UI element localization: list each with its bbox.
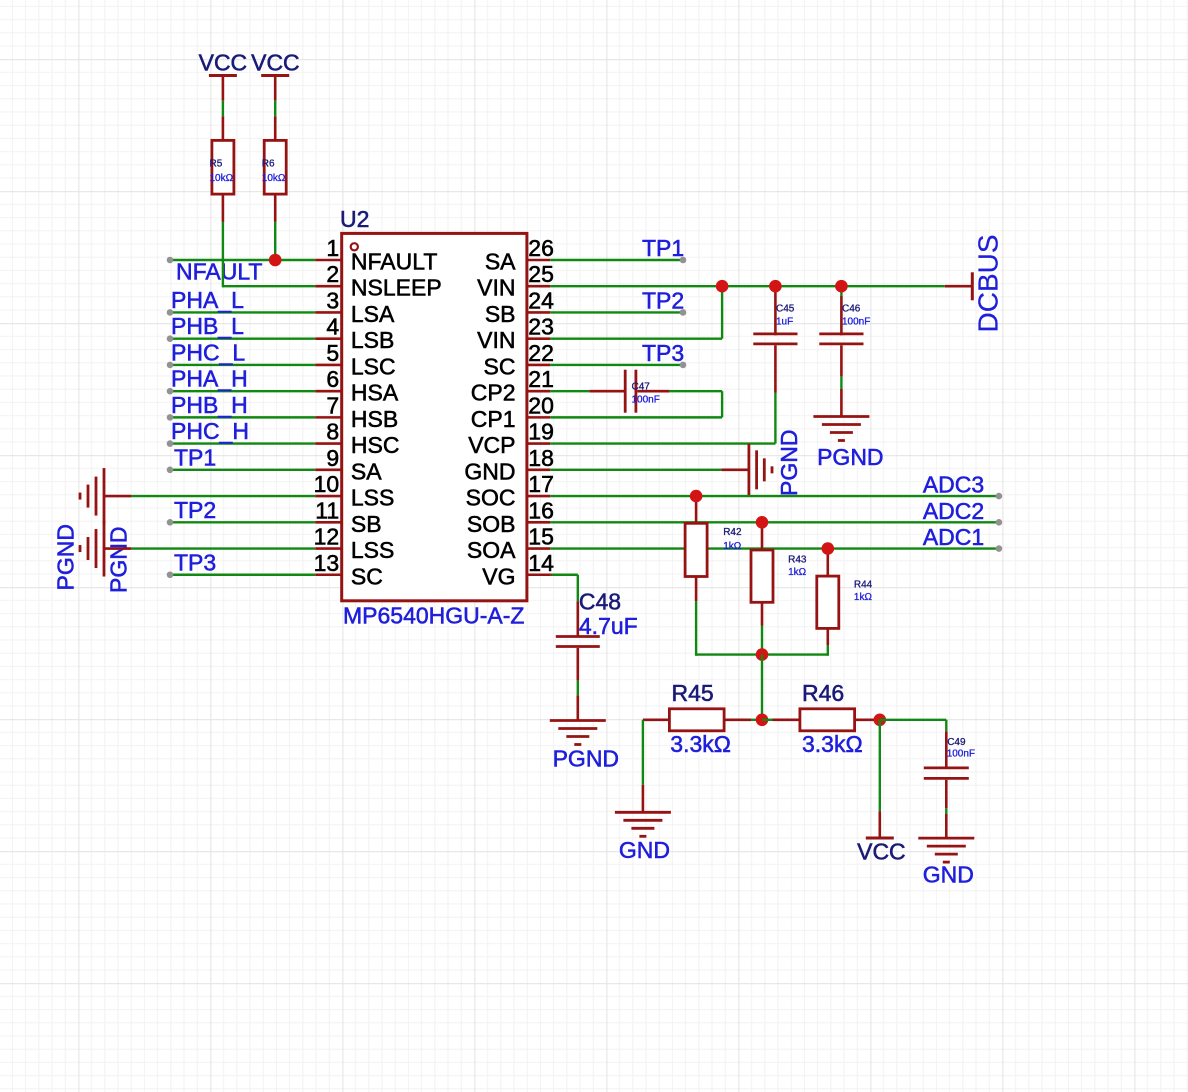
pin 8 HSC (left stub) — [315, 419, 399, 459]
svg-text:CP1: CP1 — [471, 406, 516, 432]
power flag DCBUS — [945, 234, 1004, 332]
svg-text:GND: GND — [923, 862, 974, 888]
svg-text:19: 19 — [528, 419, 554, 445]
resistor R46 3.3kΩ — [762, 680, 880, 757]
svg-text:R44: R44 — [854, 580, 873, 591]
pin 18 GND (right stub) — [464, 445, 554, 485]
svg-text:5: 5 — [326, 340, 339, 366]
svg-text:DCBUS: DCBUS — [973, 234, 1004, 332]
svg-text:VCP: VCP — [468, 432, 515, 458]
pin 22 SC (right stub) — [484, 340, 554, 380]
net label ADC3 wire (pin 17 SOC) — [550, 472, 1002, 500]
svg-text:8: 8 — [326, 419, 339, 445]
svg-text:PHB_H: PHB_H — [171, 392, 248, 418]
pin 25 VIN (right stub) — [477, 261, 554, 301]
svg-text:2: 2 — [326, 261, 339, 287]
wire pin 14 VG to C48 — [550, 575, 578, 637]
svg-text:NSLEEP: NSLEEP — [351, 275, 442, 301]
junction R46/VCC/C49 — [874, 714, 887, 727]
wire R43 to sense node — [761, 626, 763, 655]
svg-text:LSS: LSS — [351, 485, 394, 511]
svg-text:PGND: PGND — [106, 527, 132, 593]
svg-text:TP1: TP1 — [174, 444, 216, 470]
capacitor C47 100nF — [625, 370, 669, 413]
pin 20 CP1 (right stub) — [471, 392, 554, 432]
svg-text:TP3: TP3 — [642, 340, 684, 366]
net label PHB_H wire (pin 7) — [167, 392, 316, 421]
wire C47 to pin 20 CP1 — [550, 391, 722, 417]
net label TP1 wire (pin 9) — [167, 444, 316, 473]
svg-text:TP2: TP2 — [174, 497, 216, 523]
wire R44 to sense node — [762, 645, 828, 656]
svg-text:HSA: HSA — [351, 380, 399, 406]
svg-text:GND: GND — [619, 837, 670, 863]
capacitor C46 100nF — [819, 286, 870, 376]
svg-text:VG: VG — [482, 563, 515, 589]
svg-text:100nF: 100nF — [947, 748, 975, 759]
svg-text:C45: C45 — [776, 304, 795, 315]
svg-text:R42: R42 — [723, 527, 742, 538]
ground GND (R45) — [615, 812, 671, 863]
svg-text:22: 22 — [528, 340, 554, 366]
pin 13 SC (left stub) — [314, 550, 383, 590]
pin 16 SOB (right stub) — [467, 497, 554, 537]
pin 17 SOC (right stub) — [466, 471, 554, 511]
svg-text:14: 14 — [528, 550, 554, 576]
ground PGND (pin 18) — [749, 430, 802, 496]
svg-text:SOA: SOA — [467, 537, 516, 563]
svg-text:SB: SB — [485, 301, 516, 327]
svg-text:U2: U2 — [340, 206, 369, 232]
svg-text:PHA_L: PHA_L — [171, 287, 244, 313]
svg-text:3.3kΩ: 3.3kΩ — [670, 731, 731, 757]
wire to C49 — [880, 720, 947, 767]
power flag VCC (R5) — [199, 50, 248, 101]
junction sense/R45/R46 — [756, 714, 769, 727]
net label ADC2 wire (pin 16 SOB) — [550, 498, 1002, 526]
power flag VCC (R6) — [251, 50, 300, 101]
svg-text:GND: GND — [464, 458, 515, 484]
junction ADC3/R42 — [690, 490, 703, 503]
wire VCC to R5 — [222, 101, 224, 117]
capacitor C49 100nF — [924, 737, 975, 809]
svg-text:11: 11 — [315, 497, 339, 523]
junction ADC2/R43 — [756, 516, 769, 529]
svg-text:4.7uF: 4.7uF — [579, 613, 638, 639]
pin 2 NSLEEP (left stub) — [315, 261, 441, 301]
svg-text:LSS: LSS — [351, 537, 394, 563]
wire VCC to R6 — [274, 101, 276, 117]
resistor R43 1kΩ — [751, 522, 807, 625]
pin 24 SB (right stub) — [485, 287, 554, 327]
capacitor C45 1uF — [753, 286, 797, 344]
pin 15 SOA (right stub) — [467, 524, 554, 564]
svg-text:17: 17 — [528, 471, 554, 497]
svg-text:R46: R46 — [802, 680, 844, 706]
svg-text:100nF: 100nF — [842, 317, 870, 328]
svg-text:4: 4 — [326, 314, 339, 340]
resistor R45 3.3kΩ — [643, 680, 762, 757]
pin 26 SA (right stub) — [485, 235, 554, 275]
svg-text:HSC: HSC — [351, 432, 400, 458]
svg-text:3: 3 — [326, 287, 339, 313]
svg-text:SOC: SOC — [466, 485, 516, 511]
svg-text:1kΩ: 1kΩ — [788, 567, 807, 578]
junction pin1/R6 — [269, 254, 282, 267]
net label PHB_L wire (pin 4) — [167, 313, 316, 342]
svg-text:R5: R5 — [210, 159, 223, 170]
net label TP3 wire (pin 22) — [550, 340, 686, 368]
svg-text:LSA: LSA — [351, 301, 395, 327]
pin 21 CP2 (right stub) — [471, 366, 554, 406]
net label PHC_L wire (pin 5) — [167, 339, 316, 368]
svg-text:ADC2: ADC2 — [923, 498, 984, 524]
pin 12 LSS (left stub) — [314, 524, 395, 564]
svg-text:C47: C47 — [632, 381, 651, 392]
svg-text:ADC1: ADC1 — [923, 524, 984, 550]
svg-text:1uF: 1uF — [776, 317, 793, 328]
ground PGND (pin 12 LSS) — [80, 521, 315, 593]
svg-text:NFAULT: NFAULT — [176, 259, 262, 285]
wire R42 to sense node — [696, 601, 762, 656]
wire C46 to ground — [840, 376, 842, 416]
svg-text:C49: C49 — [947, 737, 966, 748]
ground GND (C49) — [918, 838, 974, 887]
net label ADC1 wire (pin 15 SOA) — [550, 524, 1002, 552]
svg-text:7: 7 — [326, 392, 339, 418]
junction VIN/C45 — [769, 280, 782, 293]
junction ADC1/R44 — [822, 542, 835, 555]
junction VIN/C46 — [835, 280, 848, 293]
wire VIN bus (pin 25) — [550, 285, 945, 287]
wire C49 to GND — [945, 808, 947, 838]
svg-text:1kΩ: 1kΩ — [854, 592, 873, 603]
ground PGND (C48) — [550, 721, 619, 772]
svg-text:12: 12 — [314, 524, 340, 550]
net label TP3 wire (pin 13) — [167, 549, 316, 578]
svg-text:CP2: CP2 — [471, 380, 516, 406]
ground PGND (pin 10 LSS) — [53, 468, 316, 590]
net label PHC_H wire (pin 8) — [167, 418, 316, 447]
svg-text:VCC: VCC — [199, 50, 248, 76]
pin 6 HSA (left stub) — [315, 366, 399, 406]
svg-text:MP6540HGU-A-Z: MP6540HGU-A-Z — [343, 603, 524, 629]
svg-text:15: 15 — [528, 524, 554, 550]
pin 10 LSS (left stub) — [314, 471, 395, 511]
pin 3 LSA (left stub) — [315, 287, 395, 327]
svg-text:25: 25 — [528, 261, 554, 287]
IC U2 MP6540HGU-A-Z body — [340, 206, 527, 629]
svg-text:13: 13 — [314, 550, 340, 576]
svg-text:SB: SB — [351, 511, 382, 537]
wire pin 19 VCP — [550, 345, 775, 443]
svg-text:PHC_H: PHC_H — [171, 418, 249, 444]
resistor R44 1kΩ — [817, 549, 873, 645]
net label TP2 wire (pin 24) — [550, 287, 686, 315]
wire R6 to pin 1 node — [274, 222, 276, 260]
svg-text:LSB: LSB — [351, 327, 394, 353]
svg-text:18: 18 — [528, 445, 554, 471]
pin 19 VCP (right stub) — [468, 419, 554, 459]
net label NFAULT wire (pin 1) — [167, 257, 316, 285]
svg-text:TP3: TP3 — [174, 549, 216, 575]
svg-text:SA: SA — [351, 458, 382, 484]
ground PGND (C46) — [813, 417, 883, 470]
svg-text:R43: R43 — [788, 554, 807, 565]
svg-text:PHC_L: PHC_L — [171, 339, 245, 365]
svg-text:R45: R45 — [672, 680, 714, 706]
junction sense node — [756, 648, 769, 661]
svg-text:26: 26 — [528, 235, 554, 261]
net label TP1 wire (pin 26) — [550, 235, 686, 263]
svg-text:3.3kΩ: 3.3kΩ — [802, 731, 863, 757]
svg-text:SOB: SOB — [467, 511, 516, 537]
svg-text:6: 6 — [326, 366, 339, 392]
wire pin 18 GND — [550, 469, 749, 471]
svg-text:PGND: PGND — [53, 524, 79, 590]
pin 1 NFAULT (left stub) — [315, 235, 437, 275]
svg-text:PHB_L: PHB_L — [171, 313, 244, 339]
pin 23 VIN (right stub) — [477, 314, 554, 354]
svg-text:PGND: PGND — [553, 746, 619, 772]
power flag VCC (bottom) — [857, 720, 906, 865]
wire R5 to pin 2 NSLEEP — [223, 222, 315, 288]
svg-text:HSB: HSB — [351, 406, 398, 432]
net label PHA_H wire (pin 6) — [167, 366, 316, 395]
svg-text:9: 9 — [326, 445, 339, 471]
svg-text:C46: C46 — [842, 304, 861, 315]
svg-text:1kΩ: 1kΩ — [723, 541, 742, 552]
svg-text:21: 21 — [528, 366, 554, 392]
pin 4 LSB (left stub) — [315, 314, 394, 354]
svg-text:100nF: 100nF — [632, 394, 660, 405]
net label PHA_L wire (pin 3) — [167, 287, 316, 316]
svg-text:24: 24 — [528, 287, 554, 313]
svg-text:SA: SA — [485, 249, 516, 275]
svg-text:SC: SC — [484, 353, 516, 379]
svg-text:PHA_H: PHA_H — [171, 366, 248, 392]
capacitor C48 4.7uF — [556, 589, 638, 681]
wire VIN to pin 23 — [550, 286, 722, 338]
svg-text:10kΩ: 10kΩ — [210, 173, 234, 184]
wire R45 to GND — [642, 720, 644, 813]
svg-text:C48: C48 — [579, 589, 621, 615]
resistor R42 1kΩ — [685, 496, 742, 601]
svg-text:23: 23 — [528, 314, 554, 340]
svg-text:TP1: TP1 — [642, 235, 684, 261]
pin 7 HSB (left stub) — [315, 392, 398, 432]
svg-text:16: 16 — [528, 497, 554, 523]
net label TP2 wire (pin 11) — [167, 497, 316, 526]
pin 11 SB (left stub) — [315, 497, 381, 537]
svg-text:PGND: PGND — [776, 430, 802, 496]
svg-text:SC: SC — [351, 563, 383, 589]
junction VIN/pin23 — [716, 280, 729, 293]
svg-text:10: 10 — [314, 471, 340, 497]
svg-text:TP2: TP2 — [642, 287, 684, 313]
svg-text:ADC3: ADC3 — [923, 472, 984, 498]
pin 5 LSC (left stub) — [315, 340, 395, 380]
svg-text:PGND: PGND — [817, 444, 883, 470]
resistor R6 10kΩ — [262, 116, 286, 222]
pin 9 SA (left stub) — [315, 445, 382, 485]
resistor R5 10kΩ — [210, 116, 234, 222]
svg-text:LSC: LSC — [351, 353, 396, 379]
svg-text:VIN: VIN — [477, 275, 515, 301]
svg-text:R6: R6 — [262, 159, 275, 170]
svg-text:20: 20 — [528, 392, 554, 418]
wire pin 21 CP2 to C47 — [550, 390, 624, 392]
svg-text:10kΩ: 10kΩ — [262, 173, 286, 184]
svg-text:VIN: VIN — [477, 327, 515, 353]
svg-text:VCC: VCC — [857, 839, 906, 865]
svg-text:1: 1 — [326, 235, 339, 261]
svg-text:VCC: VCC — [251, 50, 300, 76]
wire sense node down — [761, 655, 763, 720]
wire C48 to ground — [577, 680, 579, 720]
svg-text:NFAULT: NFAULT — [351, 249, 437, 275]
pin 14 VG (right stub) — [482, 550, 554, 590]
